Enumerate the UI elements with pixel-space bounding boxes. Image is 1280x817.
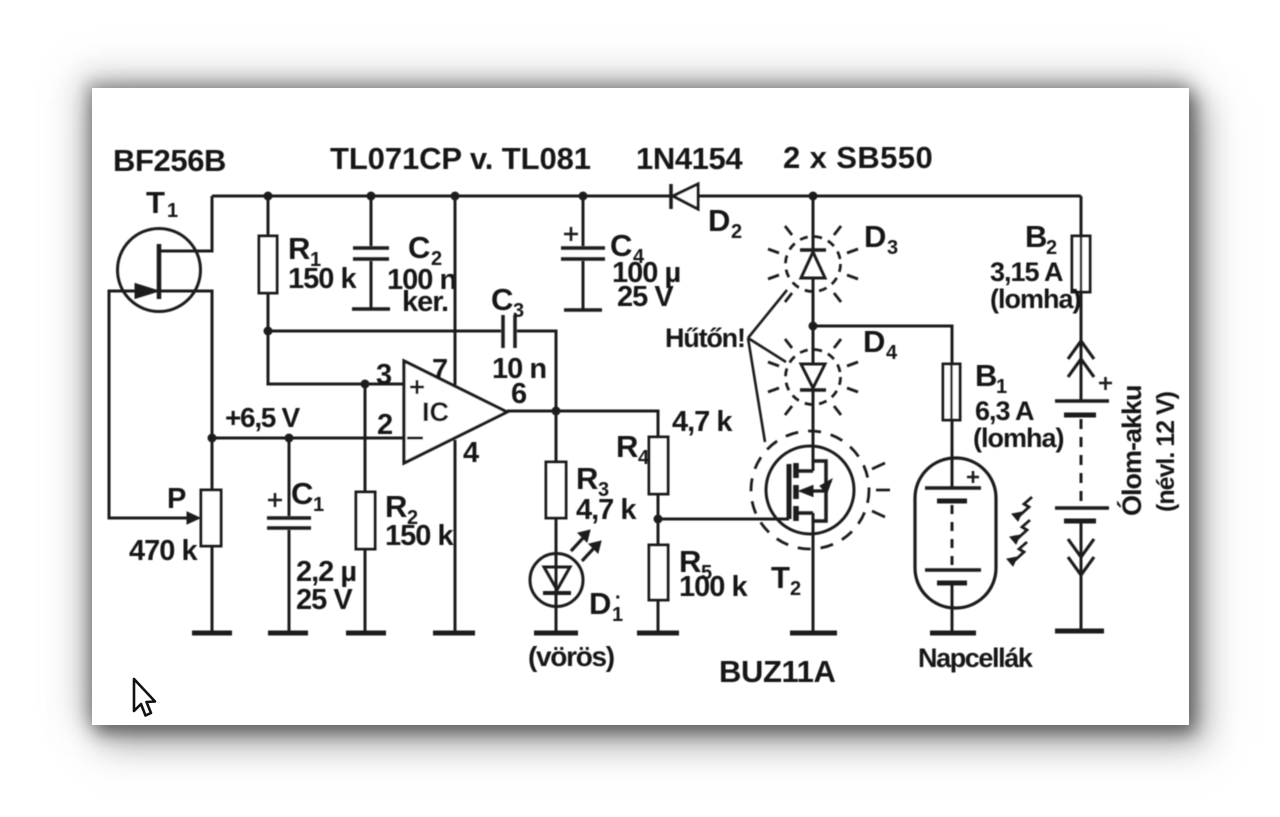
LED D1 voros: [530, 553, 583, 607]
termination bar under C4: [564, 308, 602, 312]
wire R1 bottom to node A: [267, 293, 270, 331]
label 3,15 A value of B2: [990, 257, 1063, 287]
wire D3 column top: [812, 196, 815, 250]
T2 channel segments: [793, 463, 799, 521]
wire gate feed to T2: [658, 518, 789, 521]
svg-text:1: 1: [167, 200, 178, 222]
label T2: [771, 560, 801, 600]
label Huton callout: [665, 323, 745, 353]
svg-text:+6,5 V: +6,5 V: [225, 402, 301, 433]
svg-text:B: B: [975, 358, 997, 393]
label TL071CP v. TL081 for IC: [330, 141, 591, 176]
svg-text:Ólom-akku: Ólom-akku: [1116, 385, 1147, 516]
label R4: [616, 429, 650, 469]
svg-text:4,7 k: 4,7 k: [576, 494, 637, 526]
svg-text:Napcellák: Napcellák: [918, 643, 1034, 673]
resistor R5 100k: [649, 545, 668, 600]
label (voros): [528, 641, 614, 672]
label 25 V of C4: [617, 281, 674, 313]
label (nevl. 12 V) rotated: [1152, 391, 1180, 512]
svg-text:BUZ11A: BUZ11A: [719, 654, 835, 689]
label Napcellak: [918, 643, 1034, 673]
label (lomha) of B2: [990, 284, 1081, 314]
svg-text:150 k: 150 k: [288, 263, 357, 295]
node junction D3 D4 B1: [809, 322, 818, 331]
svg-text:2: 2: [731, 221, 742, 243]
page frame: [92, 88, 1189, 725]
svg-text:(vörös): (vörös): [528, 641, 614, 672]
label +6,5 V: [225, 402, 301, 433]
wire pin2 horizontal: [212, 437, 404, 440]
mouse cursor: [134, 679, 155, 716]
wire battery to ground: [1080, 523, 1083, 631]
wire T1 source down to pin2 node: [159, 291, 212, 438]
wire C3 right plate to output column: [517, 331, 556, 411]
wire node A down and right to pin 3: [268, 331, 404, 384]
T2 drain lead: [796, 469, 813, 473]
solar cell top long plate: [925, 486, 981, 490]
pin number 4: [463, 437, 479, 469]
label D1: [589, 586, 623, 626]
svg-text:D: D: [864, 219, 886, 254]
solar cell bottom short plate: [937, 581, 967, 586]
plus sign of C1: [268, 493, 282, 507]
svg-text:7: 7: [432, 354, 447, 386]
label D2: [708, 203, 742, 243]
ground bar under P: [192, 631, 232, 636]
label 25 V of C1: [296, 584, 353, 616]
svg-text:R: R: [288, 231, 310, 266]
wire R1 top: [267, 196, 270, 236]
svg-text:T: T: [771, 560, 790, 595]
wire D4 to T2 drain: [812, 390, 815, 471]
wire C4 top: [582, 196, 585, 246]
potentiometer P 470k: [187, 490, 221, 546]
label (lomha) of B1: [973, 423, 1064, 453]
T2 source lead: [796, 511, 813, 515]
svg-text:4,7 k: 4,7 k: [672, 406, 733, 438]
wire node A to C3 left plate: [268, 330, 501, 333]
svg-text:C: C: [408, 230, 430, 265]
battery down chevrons: [1068, 539, 1094, 575]
pin number 3: [376, 359, 392, 391]
svg-text:2: 2: [1046, 237, 1057, 259]
label R2: [385, 489, 418, 529]
svg-text:150 k: 150 k: [385, 520, 454, 552]
LED D1 emission arrows: [571, 530, 601, 561]
node junction rail C2: [367, 192, 376, 201]
D4 shine rays: [768, 339, 858, 424]
D3 shine rays: [768, 217, 858, 311]
label BF256B for T1: [113, 143, 226, 178]
label R1: [288, 231, 321, 271]
label 470 k: [129, 535, 198, 567]
plus sign solar: [967, 471, 979, 483]
pin number 2: [377, 409, 392, 441]
resistor R4 4.7k: [649, 437, 668, 494]
svg-text:BF256B: BF256B: [113, 143, 226, 178]
svg-text:470 k: 470 k: [129, 535, 198, 567]
node junction pin2/T1/P: [208, 434, 217, 443]
svg-text:(lomha): (lomha): [990, 284, 1081, 314]
T2 right shine rays: [872, 463, 890, 517]
svg-text:6: 6: [511, 378, 527, 410]
label D4: [863, 324, 898, 364]
battery bottom short plate: [1064, 519, 1096, 524]
capacitor C2 100n plates: [353, 248, 389, 259]
wire top supply rail: [212, 195, 1081, 198]
svg-text:Hűtőn!: Hűtőn!: [665, 323, 745, 353]
node junction C1 top: [285, 434, 294, 443]
label 10 n value of C3: [492, 353, 546, 385]
wire P bottom to ground: [211, 546, 214, 633]
capacitor C4 100u plates: [561, 248, 605, 259]
battery top short plate: [1064, 413, 1096, 418]
transistor T1 BF256B JFET: [118, 229, 201, 312]
resistor R2 150k: [356, 492, 375, 549]
label IC: [422, 397, 449, 427]
T2 package circle: [766, 446, 854, 534]
diode D4 SB550: [786, 350, 841, 405]
svg-text:TL071CP v. TL081: TL071CP v. TL081: [330, 141, 591, 176]
resistor R1 150k: [259, 236, 277, 293]
node junction rail pin7: [451, 192, 460, 201]
label 100 n value of C2: [387, 264, 456, 296]
label R3: [576, 461, 609, 501]
resistor R3 4.7k: [546, 462, 566, 518]
wire pin 4 to ground: [454, 440, 457, 633]
solar cell dashed link: [951, 505, 954, 566]
node junction rail R1: [264, 192, 273, 201]
wire R5 bottom to ground: [657, 600, 660, 633]
ground bar under D1: [534, 631, 578, 636]
svg-text:2 x SB550: 2 x SB550: [783, 140, 933, 175]
node junction rail D3 column: [809, 192, 818, 201]
T2 right connection bar: [813, 461, 826, 521]
termination bar under C2: [352, 307, 390, 311]
svg-text:4: 4: [463, 437, 479, 469]
label D3: [864, 219, 898, 259]
wire C1 top: [288, 438, 291, 516]
svg-text:·: ·: [615, 587, 622, 609]
T2 dashed heatsink circle: [751, 431, 869, 549]
wire C1 bottom to ground: [288, 530, 291, 633]
svg-text:6,3 A: 6,3 A: [975, 396, 1034, 426]
svg-text:3: 3: [513, 300, 524, 322]
capacitor C1 2.2u plates: [267, 518, 311, 528]
svg-text:R: R: [616, 429, 638, 464]
svg-text:2: 2: [790, 578, 801, 600]
plus sign battery: [1099, 377, 1112, 390]
label C4: [610, 228, 645, 268]
label 2 x SB550 for D3 D4: [783, 140, 933, 175]
diode D3 SB550: [786, 237, 841, 292]
solar light arrows: [1007, 497, 1032, 566]
svg-text:R: R: [576, 461, 598, 496]
node junction pin3 / R2: [361, 380, 370, 389]
fuse B1 6.3A: [943, 364, 960, 420]
capacitor C3 10n plates: [503, 315, 515, 348]
svg-text:1: 1: [313, 494, 324, 516]
node junction rail C4: [579, 192, 588, 201]
svg-text:3: 3: [887, 237, 898, 259]
wire junction to B1: [813, 326, 952, 364]
wire rail corner to B2: [1080, 196, 1083, 236]
wire T1 gate loop to P wiper: [109, 291, 188, 518]
wire solar cell to ground: [951, 583, 954, 633]
T2 body arrow: [807, 489, 826, 492]
T2 star mark: [820, 479, 832, 493]
svg-text:25 V: 25 V: [296, 584, 353, 616]
wire B2 to battery: [1080, 292, 1083, 401]
pin number 6: [511, 378, 527, 410]
wire between D3 and D4: [812, 278, 815, 364]
wire C2 top: [370, 196, 373, 246]
svg-text:ker.: ker.: [402, 286, 448, 318]
wire P top: [211, 438, 214, 490]
battery bottom long plate: [1055, 506, 1109, 510]
wire T2 source to ground: [812, 513, 815, 633]
label 6,3 A value of B1: [975, 396, 1034, 426]
battery top long plate: [1055, 399, 1109, 403]
wire D1 to ground: [555, 607, 558, 633]
label T1: [146, 185, 178, 222]
label 150 k value of R1: [288, 263, 357, 295]
op-amp U1 IC TL071 triangle: [404, 361, 507, 463]
node junction A R1/C3/pin3: [264, 327, 273, 336]
ground bar under battery: [1055, 629, 1104, 634]
svg-text:25 V: 25 V: [617, 281, 674, 313]
plus sign of C4: [564, 227, 578, 241]
svg-text:C: C: [491, 282, 513, 317]
wire R3 to D1: [555, 518, 558, 553]
callout lines to D3 D4 T2 heatsink: [748, 290, 787, 442]
svg-text:3,15 A: 3,15 A: [990, 257, 1063, 287]
label R5: [679, 544, 712, 584]
svg-text:R: R: [385, 489, 407, 524]
wire C2 bottom stub: [370, 261, 373, 309]
label 4,7 k value of R3: [576, 494, 637, 526]
label 100 k value of R5: [679, 571, 748, 603]
wire R3 top: [555, 411, 558, 462]
svg-text:1N4154: 1N4154: [636, 141, 743, 176]
ground bar under T2: [790, 631, 837, 636]
wire pin3 node down to R2 (crosses pin2 wire): [364, 384, 367, 492]
ground bar under R2: [346, 631, 386, 636]
T2 gate plate: [787, 464, 792, 519]
svg-text:(lomha): (lomha): [973, 423, 1064, 453]
wire op-amp output pin6: [507, 411, 658, 437]
wire B1 to solar cell: [951, 420, 954, 488]
label C3: [491, 282, 524, 322]
label 1N4154 for D2: [636, 141, 743, 176]
svg-text:D: D: [863, 324, 885, 359]
svg-text:IC: IC: [422, 397, 449, 427]
wire R4 bottom to node: [657, 494, 660, 545]
svg-text:B: B: [1025, 219, 1047, 254]
label 100 u value of C4: [612, 257, 680, 289]
battery dashed middle: [1080, 419, 1083, 506]
svg-text:P: P: [167, 483, 186, 515]
ground bar under solar cell: [930, 631, 976, 636]
wire C4 bottom stub: [582, 261, 585, 310]
label C2: [408, 230, 442, 270]
wire pin 7 from rail to op-amp: [454, 196, 457, 385]
label 4,7 k value of R4: [672, 406, 733, 438]
label ker.: [402, 286, 448, 318]
svg-text:(névl. 12 V): (névl. 12 V): [1152, 391, 1180, 512]
fuse B2 3.15A: [1072, 236, 1090, 292]
svg-text:100 k: 100 k: [679, 571, 748, 603]
svg-text:3: 3: [376, 359, 392, 391]
ground bar under C1: [268, 631, 308, 636]
svg-text:4: 4: [638, 447, 650, 469]
label B2: [1025, 219, 1057, 259]
pin number 7: [432, 354, 447, 386]
label P: [167, 483, 186, 515]
svg-text:D: D: [589, 586, 611, 621]
battery up chevrons: [1068, 341, 1094, 377]
label C1: [291, 476, 324, 516]
label 2,2 u value of C1: [296, 556, 356, 588]
svg-text:4: 4: [886, 342, 898, 364]
svg-text:D: D: [708, 203, 730, 238]
label Olom-akku rotated: [1116, 385, 1147, 516]
solar cell top short plate: [937, 499, 967, 504]
transistor T2 BUZ11A MOSFET: [751, 431, 890, 549]
label BUZ11A: [719, 654, 835, 689]
wire R2 bottom to ground: [364, 549, 367, 633]
label 150 k value of R2: [385, 520, 454, 552]
svg-text:1: 1: [996, 376, 1007, 398]
wire T1 drain to rail: [159, 196, 212, 251]
solar cell Napcellak outline: [915, 458, 996, 608]
svg-text:C: C: [291, 476, 313, 511]
node junction R4 R5 gate: [654, 515, 663, 524]
ground bar under pin4: [433, 631, 475, 636]
svg-text:2: 2: [377, 409, 392, 441]
svg-text:T: T: [146, 185, 165, 220]
ground bar under R5: [637, 631, 679, 636]
label B1: [975, 358, 1007, 398]
node junction output R3: [552, 407, 561, 416]
solar cell bottom long plate: [925, 568, 981, 572]
diode D2 1N4154: [671, 184, 698, 209]
